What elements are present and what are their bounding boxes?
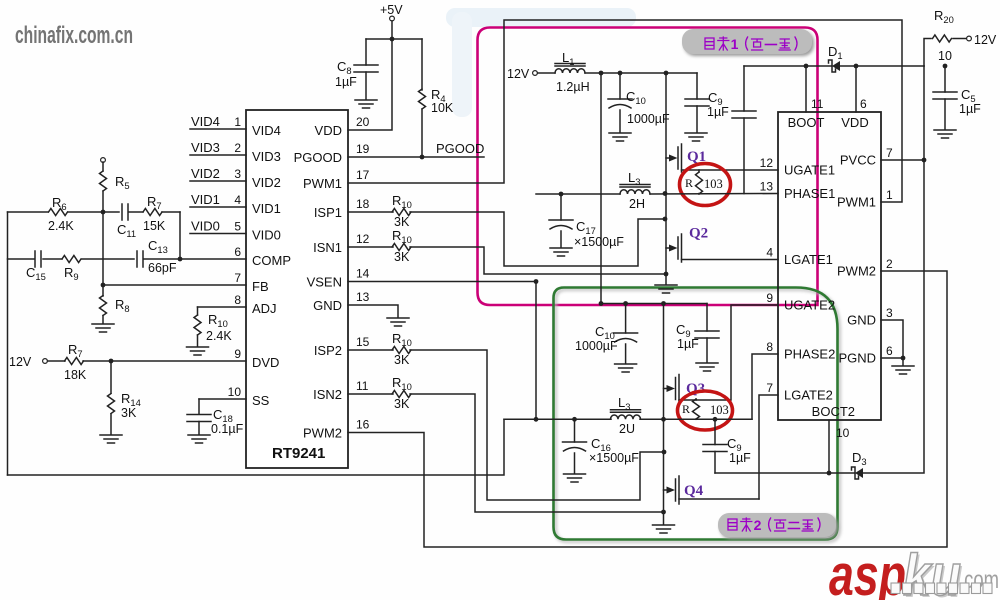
svg-text:BOCT2: BOCT2	[812, 404, 855, 419]
svg-text:12V: 12V	[9, 355, 32, 369]
svg-text:PVCC: PVCC	[840, 153, 876, 168]
watermark chinafix.com.cn	[15, 22, 133, 49]
wire ADJ	[198, 307, 247, 315]
svg-text:VID0: VID0	[252, 228, 281, 243]
svg-text:R: R	[685, 176, 693, 190]
svg-text:DVD: DVD	[252, 355, 279, 370]
diode D3	[852, 450, 867, 479]
svg-text:×1500µF: ×1500µF	[589, 451, 639, 465]
wire 12V to ch2 drop	[600, 73, 602, 304]
svg-text:1000µF: 1000µF	[627, 112, 670, 126]
svg-text:PGOOD: PGOOD	[294, 150, 342, 165]
svg-text:12: 12	[760, 156, 774, 170]
svg-text:10: 10	[836, 426, 850, 440]
wire VDD pin20	[348, 39, 392, 130]
resistor R10 isn2	[348, 375, 412, 411]
+5V terminal	[380, 3, 403, 21]
svg-text:5: 5	[234, 220, 241, 234]
RT9241 right pin labels	[294, 115, 370, 441]
wire ch2 rail	[599, 301, 707, 306]
svg-text:chinafix.com.cn: chinafix.com.cn	[15, 22, 133, 49]
capacitor C10 ch2	[575, 304, 638, 364]
svg-text:2.4K: 2.4K	[206, 329, 232, 343]
svg-text:6: 6	[886, 344, 893, 358]
svg-text:0.1µF: 0.1µF	[211, 422, 244, 436]
svg-text:7: 7	[234, 271, 241, 285]
svg-text:VID2: VID2	[191, 166, 220, 181]
svg-text:66pF: 66pF	[148, 261, 177, 275]
wire VID0 pin 5	[190, 219, 246, 234]
svg-text:GND: GND	[847, 313, 876, 328]
svg-text:3K: 3K	[121, 406, 137, 420]
resistor R10 isp2	[348, 331, 412, 367]
svg-text:PWM2: PWM2	[837, 264, 876, 279]
channel 1 highlight box (magenta)	[478, 28, 818, 306]
resistor R20	[924, 8, 967, 66]
svg-text:FB: FB	[252, 279, 269, 294]
svg-text:+5V: +5V	[380, 3, 403, 17]
terminal 12V ch1	[507, 67, 537, 81]
capacitor bootstrap ch1	[732, 66, 756, 194]
driver right pin labels	[837, 146, 893, 366]
ground R10 adj	[187, 347, 209, 355]
node DVD junction	[109, 359, 114, 364]
svg-text:PGOOD: PGOOD	[436, 141, 484, 156]
svg-text:103: 103	[704, 177, 723, 191]
svg-text:VID2: VID2	[252, 175, 281, 190]
node COMP wire	[144, 257, 246, 262]
svg-text:UGATE2: UGATE2	[784, 298, 835, 313]
svg-text:PWM2: PWM2	[303, 426, 342, 441]
capacitor C16	[563, 419, 640, 473]
RT9241 left pin labels	[228, 115, 291, 408]
wire BOOT pin drop	[805, 66, 807, 112]
wire ch1 rail	[585, 71, 697, 76]
svg-text:1µF: 1µF	[729, 451, 751, 465]
wire FB	[103, 284, 246, 286]
wire C15 left	[8, 258, 35, 260]
svg-text:ISP1: ISP1	[314, 205, 342, 220]
svg-text:1: 1	[234, 115, 241, 129]
terminal 12V DVD	[9, 355, 47, 369]
resistor R14	[108, 361, 141, 434]
wire VDD pin drop	[855, 66, 857, 112]
label channel-2 box	[718, 513, 836, 537]
svg-text:ADJ: ADJ	[252, 301, 277, 316]
svg-text:R: R	[682, 402, 690, 416]
wire PGOOD	[348, 141, 484, 159]
wire PGND	[881, 358, 903, 365]
resistor R103 ch2	[682, 399, 729, 419]
svg-text:16: 16	[356, 418, 370, 432]
svg-text:SS: SS	[252, 393, 270, 408]
logo slogan	[891, 583, 992, 594]
wire GND3	[881, 320, 905, 360]
transistor Q4	[661, 419, 759, 524]
svg-text:×1500µF: ×1500µF	[574, 235, 624, 249]
ground C5	[934, 130, 956, 138]
capacitor C15	[26, 251, 46, 282]
svg-text:3K: 3K	[394, 353, 410, 367]
svg-text:3: 3	[234, 167, 241, 181]
transistor Q1	[666, 73, 778, 194]
capacitor C9 ch1	[685, 73, 729, 132]
wire BOOT2 pin drop	[828, 420, 830, 473]
svg-text:11: 11	[356, 379, 369, 393]
resistor R10 isn1	[348, 228, 412, 264]
logo dotcom	[959, 566, 999, 594]
resistor R103 ch1	[685, 170, 723, 194]
wire +5V down	[391, 21, 393, 39]
wire PHASE1	[536, 191, 778, 196]
channel 2 highlight box (green)	[554, 288, 838, 540]
svg-text:VSEN: VSEN	[307, 275, 342, 290]
svg-text:VID4: VID4	[252, 123, 281, 138]
wire PVCC	[881, 159, 924, 161]
svg-text:9: 9	[766, 291, 773, 305]
svg-text:1µF: 1µF	[335, 75, 357, 89]
inductor L3 ch1	[620, 170, 650, 211]
IC U2 driver body	[778, 112, 881, 420]
svg-text:2U: 2U	[619, 422, 635, 436]
svg-text:PGND: PGND	[838, 351, 876, 366]
ground C9 ch1	[685, 133, 707, 141]
wire ISP1 route	[410, 212, 667, 266]
svg-text:6: 6	[234, 245, 241, 259]
capacitor C5	[933, 66, 981, 129]
wire VID1 pin 4	[190, 192, 246, 207]
label channel-1 box	[682, 29, 812, 54]
svg-text:2.4K: 2.4K	[48, 219, 74, 233]
svg-text:7: 7	[766, 381, 773, 395]
ground Q4	[653, 525, 675, 533]
svg-text:VID1: VID1	[191, 192, 220, 207]
driver top pin labels	[788, 97, 869, 130]
wire PWM1 route	[348, 20, 902, 202]
wire VSEN	[348, 279, 538, 284]
wire D1 anode to VDD line	[840, 65, 924, 67]
resistor R7 15K	[129, 194, 180, 233]
svg-text:8: 8	[766, 340, 773, 354]
wire PWM2 route	[348, 271, 947, 547]
svg-text:10K: 10K	[431, 101, 454, 115]
transistor Q3	[664, 304, 706, 420]
svg-text:LGATE1: LGATE1	[784, 252, 833, 267]
svg-text:VDD: VDD	[315, 123, 342, 138]
resistor R8	[100, 285, 130, 323]
svg-text:1: 1	[886, 188, 893, 202]
svg-text:PWM1: PWM1	[303, 176, 342, 191]
svg-text:PHASE1: PHASE1	[784, 186, 835, 201]
resistor R5	[100, 162, 130, 285]
svg-text:ISN2: ISN2	[313, 387, 342, 402]
ground R8	[92, 324, 114, 332]
capacitor C18	[187, 407, 244, 436]
inductor L1	[538, 50, 590, 94]
svg-text:VID4: VID4	[191, 114, 220, 129]
resistor R10 isp1	[348, 193, 412, 229]
wire C13-R9	[82, 258, 134, 260]
wire ISN2 route	[410, 394, 664, 512]
wire ISN1 route	[410, 247, 665, 274]
svg-text:4: 4	[234, 193, 241, 207]
svg-text:12V: 12V	[507, 67, 530, 81]
ground C17	[550, 248, 572, 256]
svg-text:1: 1	[731, 36, 739, 52]
ground C10 ch2	[615, 364, 637, 372]
svg-text:20: 20	[356, 115, 370, 129]
wire LGATE2 route	[759, 395, 778, 499]
wire VID2 pin 3	[190, 166, 246, 181]
wire SS	[199, 399, 246, 414]
svg-text:VID1: VID1	[252, 201, 281, 216]
svg-text:8: 8	[234, 293, 241, 307]
svg-text:3K: 3K	[394, 397, 410, 411]
svg-text:7: 7	[886, 146, 893, 160]
svg-text:18: 18	[356, 197, 370, 211]
wire VID3 pin 2	[190, 140, 246, 155]
wire R9-C15	[43, 258, 62, 260]
resistor R9	[62, 256, 81, 283]
svg-text:VID3: VID3	[252, 149, 281, 164]
svg-text:6: 6	[860, 97, 867, 111]
svg-text:UGATE1: UGATE1	[784, 163, 835, 178]
svg-text:3K: 3K	[394, 250, 410, 264]
svg-text:12V: 12V	[974, 33, 997, 47]
light glow behind channel-1 box	[446, 8, 636, 117]
terminal R5 top	[101, 158, 106, 163]
capacitor C17	[549, 194, 624, 249]
capacitor C10 ch1	[608, 73, 670, 132]
svg-text:Q2: Q2	[689, 226, 708, 242]
capacitor C8	[335, 39, 378, 99]
red circle ch1	[680, 164, 731, 206]
svg-text:3: 3	[886, 306, 893, 320]
resistor R6	[8, 195, 104, 233]
svg-text:3K: 3K	[394, 215, 410, 229]
svg-text:2: 2	[754, 517, 762, 533]
wire VID4 pin 1	[190, 114, 246, 129]
svg-text:1µF: 1µF	[677, 337, 699, 351]
svg-text:13: 13	[760, 180, 774, 194]
node FB junction	[101, 210, 106, 288]
svg-text:VID0: VID0	[191, 219, 220, 234]
inductor L3 ch2	[611, 395, 641, 436]
ground C9 ch2a	[696, 363, 718, 371]
left feedback vertical	[7, 212, 9, 475]
capacitor bootstrap ch2	[703, 419, 751, 473]
svg-text:1000µF: 1000µF	[575, 339, 618, 353]
transistor Q2	[664, 194, 778, 284]
svg-text:17: 17	[356, 168, 370, 182]
red circle ch2	[678, 391, 733, 430]
ground C10 ch1	[609, 133, 631, 141]
svg-text:1µF: 1µF	[959, 102, 981, 116]
svg-text:2: 2	[234, 141, 241, 155]
ground C8	[355, 100, 377, 108]
svg-text:14: 14	[356, 267, 370, 281]
wire +5V rail	[366, 37, 422, 42]
wire PHASE2 pin route	[752, 354, 778, 419]
svg-text:4: 4	[766, 246, 773, 260]
ground C18	[188, 435, 210, 443]
wire PVCC-D3 vertical	[863, 66, 926, 473]
svg-text:ISP2: ISP2	[314, 343, 342, 358]
svg-text:Q4: Q4	[684, 483, 704, 499]
wire UGATE2 route	[680, 305, 778, 400]
svg-text:2: 2	[886, 257, 893, 271]
wire PHASE2 line	[504, 417, 752, 422]
svg-text:PHASE2: PHASE2	[784, 347, 835, 362]
svg-text:BOOT: BOOT	[788, 115, 825, 130]
ground Q2	[655, 285, 677, 293]
svg-text:VDD: VDD	[841, 115, 868, 130]
svg-text:11: 11	[811, 97, 824, 111]
svg-text:15: 15	[356, 335, 370, 349]
svg-text:1.2µH: 1.2µH	[556, 80, 590, 94]
svg-text:ISN1: ISN1	[313, 240, 342, 255]
resistor R10 adj	[194, 312, 232, 346]
wire VOUT join	[535, 282, 537, 420]
ground C16	[564, 474, 586, 482]
driver left pin labels	[760, 156, 836, 403]
svg-text:12: 12	[356, 232, 370, 246]
svg-text:9: 9	[234, 347, 241, 361]
terminal 12V R20	[967, 33, 997, 47]
svg-text:103: 103	[710, 403, 729, 417]
svg-text:RT9241: RT9241	[272, 445, 325, 462]
IC U1 RT9241 body	[246, 110, 348, 468]
ground driver	[892, 366, 914, 374]
ground R14	[100, 435, 122, 443]
logo asp	[829, 543, 906, 600]
wire VOUT feedback	[8, 419, 505, 475]
svg-text:1µF: 1µF	[707, 105, 729, 119]
wire GND13	[348, 305, 398, 317]
wire comp corner	[179, 212, 181, 259]
svg-text:19: 19	[356, 142, 370, 156]
wire BOOT line	[744, 64, 947, 69]
svg-text:18K: 18K	[64, 368, 87, 382]
wire ISP2 route	[410, 350, 666, 500]
wire BOOT2 line	[715, 471, 855, 476]
capacitor C11	[103, 204, 136, 239]
svg-text:15K: 15K	[143, 219, 166, 233]
svg-text:13: 13	[356, 290, 370, 304]
diode D1	[828, 44, 843, 72]
capacitor C9 ch2a	[676, 304, 719, 363]
svg-text:GND: GND	[313, 298, 342, 313]
ground GND13	[387, 318, 409, 326]
svg-text:LGATE2: LGATE2	[784, 388, 833, 403]
svg-text:VID3: VID3	[191, 140, 220, 155]
svg-text:PWM1: PWM1	[837, 195, 876, 210]
svg-text:10: 10	[228, 385, 242, 399]
capacitor C13	[137, 238, 177, 275]
logo ku	[903, 543, 963, 600]
svg-text:COMP: COMP	[252, 253, 291, 268]
driver BOOT2 label	[812, 404, 855, 440]
resistor R7 18K	[48, 342, 247, 382]
resistor R4	[419, 39, 454, 157]
svg-text:10: 10	[938, 49, 952, 63]
svg-text:2H: 2H	[629, 197, 645, 211]
